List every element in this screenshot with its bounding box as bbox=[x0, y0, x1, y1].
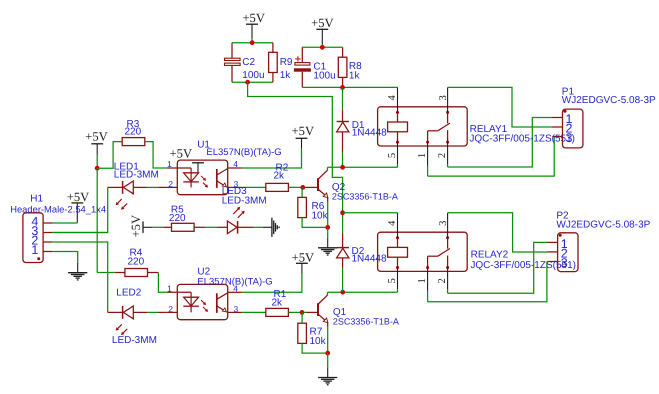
svg-text:3: 3 bbox=[566, 131, 573, 145]
wire rail to D1 bbox=[342, 87, 344, 109]
U2 pin 3 line bbox=[228, 311, 242, 313]
P2 pin-1 marker dot bbox=[559, 234, 562, 237]
+5V supply flag PWR6 bbox=[71, 203, 83, 223]
wire Q1 emitter node to ground bbox=[327, 353, 329, 377]
resistor R2 bbox=[266, 183, 289, 191]
wire R3 to U1 pin1 bbox=[145, 142, 167, 168]
svg-text:2: 2 bbox=[437, 153, 448, 158]
svg-text:3: 3 bbox=[234, 304, 239, 314]
junction LED1/R3 +5V node bbox=[95, 166, 100, 171]
wire D1 to collector node bbox=[342, 153, 344, 168]
U2 pin 2 line bbox=[167, 311, 178, 313]
LED2 emission arrows bbox=[116, 324, 128, 335]
svg-text:220: 220 bbox=[125, 127, 142, 138]
relay RELAY1 body bbox=[378, 107, 468, 146]
RELAY1 pin 4 bbox=[397, 87, 399, 112]
wire Q2 emitter bbox=[327, 202, 329, 228]
svg-text:WJ2EDGVC-5.08-3P: WJ2EDGVC-5.08-3P bbox=[556, 220, 650, 231]
capacitor C2 bbox=[225, 43, 241, 82]
wire C2/R9 top rail bbox=[232, 42, 273, 44]
resistor R4 bbox=[125, 269, 148, 277]
wire H1 pin3 to LED1 chain bbox=[52, 232, 107, 234]
svg-text:1: 1 bbox=[417, 278, 428, 283]
wire +5V node to R3 bbox=[97, 142, 122, 169]
optocoupler U1 body bbox=[177, 160, 227, 195]
junction bottom of C2/R9 bbox=[245, 80, 250, 85]
wire +5V node to R4 bbox=[97, 272, 115, 274]
wire U2 pin3 to R1 bbox=[242, 311, 266, 313]
diode D2 bbox=[337, 234, 349, 268]
svg-text:RELAY2: RELAY2 bbox=[471, 249, 509, 260]
wire U1 pin3 to R2 bbox=[242, 186, 266, 188]
wire R4 to U2 pin1 bbox=[148, 273, 167, 293]
junction relay2 coil / D2 node bbox=[340, 210, 345, 215]
LED LED2 bbox=[123, 306, 134, 319]
+5V supply flag PWR3 bbox=[296, 138, 308, 148]
svg-text:EL357N(B)(TA)-G: EL357N(B)(TA)-G bbox=[197, 277, 272, 288]
svg-text:3: 3 bbox=[438, 221, 449, 226]
LED3 emission arrows bbox=[233, 207, 244, 218]
svg-text:2k: 2k bbox=[272, 298, 284, 309]
RELAY2 pin 3 bbox=[447, 213, 449, 238]
svg-text:+5V: +5V bbox=[311, 16, 334, 30]
svg-text:1k: 1k bbox=[280, 70, 292, 81]
U2 internal LED bbox=[183, 292, 199, 312]
wire D2 to Q1 collector node bbox=[342, 268, 344, 293]
C1 plus sign bbox=[295, 56, 300, 61]
svg-text:10k: 10k bbox=[310, 336, 327, 347]
wire Q1 emitter bbox=[327, 327, 329, 353]
H1 pin-1 marker dot bbox=[37, 257, 40, 260]
wire LED1 anode to U1 pin2 bbox=[133, 186, 167, 188]
junction Q2 base / R6 bbox=[300, 185, 305, 190]
U1 pin 4 line bbox=[228, 167, 242, 169]
wire R4 left pin bbox=[115, 272, 125, 274]
svg-text:+5V: +5V bbox=[242, 11, 265, 25]
wire +5V to U2 pin4 bbox=[242, 274, 302, 293]
svg-text:1: 1 bbox=[31, 243, 38, 257]
svg-text:4: 4 bbox=[387, 220, 398, 226]
svg-text:5: 5 bbox=[387, 153, 398, 158]
+5V supply flag PWR5 bbox=[91, 144, 103, 155]
RELAY2 pin 4 bbox=[397, 213, 399, 238]
U2 pin 4 line bbox=[228, 291, 242, 293]
svg-text:+5V: +5V bbox=[129, 215, 143, 238]
svg-text:Header-Male-2.54_1x4: Header-Male-2.54_1x4 bbox=[10, 203, 106, 214]
svg-text:3: 3 bbox=[438, 95, 449, 100]
relay RELAY2 body bbox=[378, 232, 468, 271]
resistor R7 bbox=[298, 323, 307, 343]
svg-text:10k: 10k bbox=[312, 210, 329, 221]
svg-text:5: 5 bbox=[387, 278, 398, 283]
svg-text:2SC3356-T1B-A: 2SC3356-T1B-A bbox=[332, 192, 398, 202]
RELAY1 pin 3 bbox=[447, 87, 449, 112]
RELAY2 coil bbox=[388, 236, 408, 269]
wire LED3 cathode to ground bbox=[238, 226, 272, 228]
wire C2/R9 rail to relay2 coil net bbox=[248, 82, 343, 213]
svg-text:2: 2 bbox=[437, 278, 448, 283]
svg-text:WJ2EDGVC-5.08-3P: WJ2EDGVC-5.08-3P bbox=[562, 95, 656, 106]
ground GND2 (H1) bbox=[68, 273, 87, 280]
junction Q2 emitter / R6 / GND bbox=[325, 225, 330, 230]
P2 pin 1 line bbox=[547, 241, 557, 243]
RELAY1 pin 5 bbox=[397, 142, 399, 167]
svg-text:220: 220 bbox=[169, 213, 186, 224]
svg-text:4: 4 bbox=[233, 159, 238, 169]
wire R1 to Q1 base bbox=[288, 311, 306, 313]
connector P1 body bbox=[563, 109, 583, 148]
svg-text:EL357N(B)(TA)-G: EL357N(B)(TA)-G bbox=[206, 147, 281, 158]
svg-text:LED-3MM: LED-3MM bbox=[112, 335, 157, 346]
junction Q1 collector / D2 bbox=[340, 290, 345, 295]
junction top of C1/R8 bbox=[320, 45, 325, 50]
svg-text:2SC3356-T1B-A: 2SC3356-T1B-A bbox=[333, 317, 399, 327]
U1 internal LED bbox=[183, 168, 199, 187]
P1 pin 3 line bbox=[552, 136, 562, 138]
P2 pin 2 line bbox=[547, 251, 557, 253]
resistor R5 bbox=[172, 223, 195, 231]
wire H1 pin2 to LED2 chain bbox=[52, 242, 107, 312]
wire Q1 collector node bbox=[328, 291, 398, 293]
svg-text:JQC-3FF/005-1ZS(551): JQC-3FF/005-1ZS(551) bbox=[469, 134, 575, 145]
wire +5V to C1/R8 top rail bbox=[321, 44, 323, 47]
U1 emission arrows bbox=[201, 176, 208, 188]
wire relay1 pin1 to P1 pin3 bbox=[428, 137, 555, 177]
svg-text:LED-3MM: LED-3MM bbox=[222, 195, 267, 206]
wire +5V node down to LED1 bbox=[96, 168, 98, 272]
P1 pin 2 line bbox=[552, 126, 562, 128]
wire R6 bottom to emitter node bbox=[302, 218, 328, 228]
RELAY2 pin 1 bbox=[427, 268, 429, 302]
RELAY1 switch contacts bbox=[426, 111, 450, 144]
svg-text:+5V: +5V bbox=[170, 147, 193, 161]
wire +5V to C2/R9 top rail bbox=[251, 38, 253, 43]
svg-text:2k: 2k bbox=[274, 171, 286, 182]
svg-text:1N4448: 1N4448 bbox=[352, 254, 387, 265]
connector P2 body bbox=[558, 233, 578, 272]
wire R5 to LED3 bbox=[194, 226, 227, 228]
svg-text:2: 2 bbox=[168, 304, 173, 314]
svg-text:1N4448: 1N4448 bbox=[352, 128, 387, 139]
wire R6 top bbox=[301, 187, 303, 197]
resistor R9 bbox=[269, 52, 278, 72]
H1 pin 1 line bbox=[43, 251, 52, 253]
ground GND3 (LED3) (rotated) bbox=[272, 218, 279, 237]
P1 pin 1 line bbox=[552, 117, 562, 119]
RELAY2 pin 5 bbox=[397, 268, 399, 293]
wire Q2 collector node bbox=[328, 166, 398, 168]
svg-text:100u: 100u bbox=[242, 70, 264, 81]
diode D1 bbox=[337, 110, 349, 153]
svg-text:1: 1 bbox=[417, 153, 428, 158]
svg-text:3: 3 bbox=[561, 256, 568, 270]
wire relay2 pin1 to P2 pin3 bbox=[428, 262, 547, 302]
svg-text:+5V: +5V bbox=[67, 190, 90, 204]
svg-text:2: 2 bbox=[168, 179, 173, 189]
U2 phototransistor bbox=[217, 293, 228, 313]
wire relay2 pin2 to P2 pin1 bbox=[448, 242, 548, 293]
H1 pin 2 line bbox=[43, 241, 52, 243]
P1 pin-1 marker dot bbox=[564, 110, 567, 113]
wire R7 bottom to emitter node bbox=[302, 343, 328, 353]
svg-text:LED-3MM: LED-3MM bbox=[114, 169, 159, 180]
optocoupler U2 body bbox=[177, 284, 227, 319]
junction Q1 base / R7 bbox=[300, 310, 305, 315]
svg-text:4: 4 bbox=[387, 95, 398, 101]
wire H1 pin1 to ground bbox=[52, 252, 77, 273]
svg-text:1k: 1k bbox=[349, 71, 361, 82]
LED LED3 bbox=[227, 221, 237, 234]
wire LED1 cathode down to H1 pin3 row bbox=[52, 187, 107, 232]
svg-text:C2: C2 bbox=[242, 57, 255, 68]
svg-text:+5V: +5V bbox=[292, 251, 315, 265]
ground GND4 (Q1) bbox=[318, 378, 337, 385]
U1 pin 1 line bbox=[167, 167, 191, 169]
RELAY1 pin 1 bbox=[427, 142, 429, 176]
svg-text:220: 220 bbox=[128, 256, 145, 267]
wire +5V to R5 bbox=[152, 226, 163, 228]
U1 phototransistor bbox=[217, 169, 228, 188]
transistor Q2 bbox=[307, 167, 328, 202]
junction Q2 collector / D1 / relay1 pin5 bbox=[340, 165, 345, 170]
wire relay2 coil net to D2 bbox=[342, 213, 344, 234]
resistor R8 bbox=[338, 57, 347, 77]
+5V supply flag PWR1 bbox=[246, 24, 258, 38]
wire +5V to U1 pin4 bbox=[242, 148, 302, 168]
U2 pin 1 line bbox=[167, 291, 191, 293]
wire H1 pin4 to +5V bbox=[52, 222, 77, 224]
svg-text:R9: R9 bbox=[280, 57, 293, 68]
wire LED2 anode to U2 pin2 bbox=[133, 311, 167, 313]
P2 pin 3 line bbox=[547, 261, 557, 263]
wire relay2 pin3 to P2 pin2 bbox=[448, 213, 548, 252]
wire R2 to Q2 base bbox=[288, 186, 306, 188]
wire C1/R8 bottom rail to relay1 coil bbox=[302, 86, 397, 88]
wire R8 pins bbox=[342, 47, 344, 87]
U1 pin 2 line bbox=[167, 186, 178, 188]
wire R5 left pin bbox=[163, 226, 171, 228]
U1 pin 3 line bbox=[228, 186, 242, 188]
wire relay1 pin3 to P1 pin2 bbox=[448, 87, 553, 127]
LED1 emission arrows bbox=[116, 199, 128, 210]
wire coil net to relay2 pin4 bbox=[343, 212, 398, 214]
resistor R1 bbox=[266, 308, 289, 316]
svg-text:+5V: +5V bbox=[85, 129, 108, 143]
junction top of C2/R9 bbox=[250, 40, 255, 45]
RELAY1 pin 2 bbox=[447, 142, 449, 167]
svg-text:+5V: +5V bbox=[292, 124, 315, 138]
wire C1/R8 top rail bbox=[302, 46, 342, 48]
junction Q1 emitter / R7 / GND bbox=[325, 351, 330, 356]
RELAY2 pin 2 bbox=[447, 268, 449, 294]
svg-text:1: 1 bbox=[167, 283, 172, 293]
wire R9 pins bbox=[272, 43, 274, 82]
RELAY2 switch contacts bbox=[426, 236, 450, 269]
wire C2/R9 bottom rail bbox=[232, 81, 273, 83]
wire relay1 pin2 to P1 pin1 bbox=[448, 118, 553, 168]
RELAY1 coil bbox=[388, 111, 408, 144]
transistor Q1 bbox=[307, 292, 328, 327]
wire emitter node to ground bbox=[327, 227, 329, 247]
wire LED2 cathode stub bbox=[108, 311, 123, 313]
LED LED1 bbox=[123, 181, 134, 194]
svg-text:LED2: LED2 bbox=[116, 287, 141, 298]
resistor R6 bbox=[298, 197, 307, 217]
ground GND1 (Q2) bbox=[318, 248, 337, 255]
resistor R3 bbox=[122, 138, 145, 146]
+5V supply flag PWR2 bbox=[316, 29, 328, 44]
H1 pin 4 line bbox=[43, 222, 52, 224]
+5V supply flag PWR8 bbox=[296, 263, 308, 273]
U2 emission arrows bbox=[201, 300, 208, 312]
+5V supply flag PWR4 bbox=[192, 163, 204, 173]
wire +5V down to LED1 node bbox=[96, 155, 98, 169]
svg-text:100u: 100u bbox=[313, 70, 335, 81]
capacitor C1 (polarized) bbox=[294, 47, 311, 87]
wire LED1 cathode stub bbox=[108, 186, 123, 188]
+5V supply flag PWR7 (rotated) bbox=[143, 221, 152, 233]
junction R8 bottom / D1 branch bbox=[340, 85, 345, 90]
connector H1 body bbox=[23, 213, 43, 263]
H1 pin 3 line bbox=[43, 232, 52, 234]
wire R7 top bbox=[301, 312, 303, 323]
